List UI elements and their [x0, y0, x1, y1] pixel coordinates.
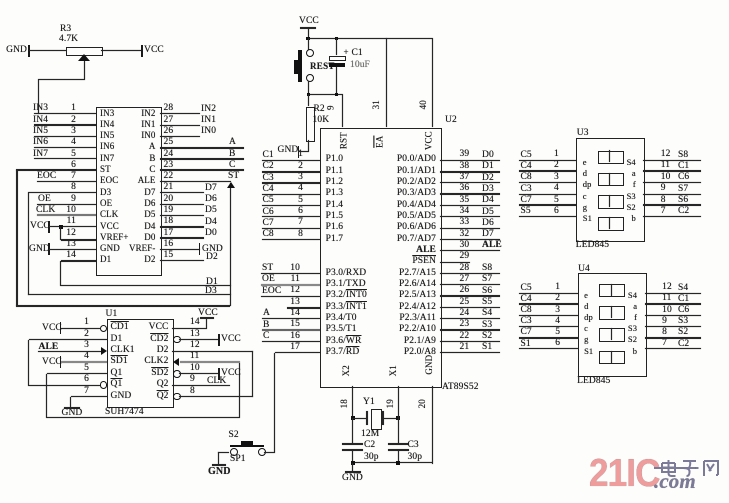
wire/net A at ADC pin 25	[160, 147, 244, 149]
pushbutton REST (reset)	[308, 38, 309, 50]
wire VCC rail to U2 pin40 VCC	[432, 38, 433, 127]
wire/net EOC to U2 pin12	[261, 296, 320, 297]
wire/net ST to U2 pin10	[261, 273, 320, 274]
wire/net C6 at U3 pin 10	[643, 182, 701, 183]
wire U2 pin18 X2 to crystal	[352, 386, 353, 418]
U3 pin numbers left 1-6	[539, 150, 559, 160]
power symbol GND near U2 pin1 (R2 bottom)	[278, 146, 299, 156]
power symbol GND below crystal	[352, 463, 353, 472]
wire/net C1 at U3 pin 11	[643, 170, 701, 172]
power symbol VCC at U1 pin14	[198, 309, 218, 319]
wire GND to ADC pin13	[49, 249, 96, 250]
power symbol VCC above U2	[299, 17, 319, 27]
flip-flop U1 SUH7474 body	[107, 319, 174, 408]
wire/net D4 at ADC pin 18	[160, 226, 204, 228]
wire/net C1 to U2 pin 1	[262, 160, 320, 161]
wire/net OE at ADC pin9	[37, 204, 96, 205]
U2 pin numbers right 39-32	[460, 150, 470, 160]
U1 pin numbers left 1-7	[69, 318, 89, 328]
wire/net IN0 at ADC pin 26	[160, 136, 200, 137]
wire/net IN3 to ADC pin 1	[34, 113, 96, 114]
wire/net D5 at U2 pin 34	[440, 216, 500, 217]
wire/net C4 to U2 pin 4	[262, 194, 320, 195]
wire U1 pin14 to VCC	[172, 328, 207, 329]
U1 internal pin names left	[111, 323, 129, 333]
wire/net IN1 at ADC pin 27	[160, 125, 200, 126]
display U4 LED845 body	[578, 273, 647, 377]
wire reset node to U2 pin9 RST	[342, 94, 343, 127]
wire net D1: ADC pin14 routed below	[61, 260, 96, 262]
wire S2 to GND	[218, 452, 229, 453]
wire U1 pin12 D2 to pin8 Q2bar	[172, 351, 253, 352]
node ST arrow junction	[227, 182, 235, 188]
wire VCC rail to U2 pin31 EA	[386, 38, 387, 127]
wire ST loop: ADC pin6 to ADC pin22 (via bottom)	[16, 169, 96, 171]
wire/net C3 to U4 pin 4	[519, 326, 578, 327]
power symbol GND (R3 left)	[0, 46, 27, 56]
wire U1 pin7 to GND	[71, 396, 107, 397]
crystal Y1 12M	[366, 411, 368, 425]
wire/net D1 at U2 pin 38	[440, 171, 500, 173]
wire/net D3 at U2 pin 36	[440, 193, 500, 195]
wire/net S2 at U2 pin 22	[440, 341, 500, 342]
wire/net S6 at U3 pin 8	[643, 204, 701, 206]
U2 internal pin names left P3	[326, 269, 367, 279]
wire U1 pin2 to U1 pin6 (D1 to Q1bar)	[29, 339, 107, 340]
U2 pin numbers right 28-21	[460, 264, 470, 274]
wire U2 pin17 to switch S2	[275, 352, 320, 353]
wire/net C5 to U4 pin 1	[519, 293, 578, 294]
wire/net S2 at U4 pin 8	[645, 337, 701, 339]
ADC pin numbers left 1-14	[51, 104, 76, 114]
wire/net C7 to U4 pin 5	[519, 337, 578, 339]
wire/net IN7 to ADC pin 5	[34, 158, 96, 159]
wire/net C at ADC pin 23	[160, 169, 244, 171]
wire/net S5 at U2 pin 25	[440, 307, 500, 308]
U4 pin numbers right 12-7	[662, 283, 672, 293]
wire/net C1 at U4 pin 11	[645, 303, 701, 305]
U2 bottom pin numbers 18 19 20	[340, 399, 349, 408]
capacitor C1 10uF	[336, 38, 337, 55]
ADC0809 U? body	[96, 107, 162, 277]
U2 internal pin names left P1	[326, 155, 344, 165]
U2 internal pin name ALE	[366, 246, 436, 256]
wire VCC to U1 pin1 bubble	[61, 328, 100, 329]
wire R2 to GND	[308, 140, 309, 152]
wire U2 pin20 GND leg	[432, 386, 433, 464]
resistor R2 10K	[308, 94, 309, 106]
wire U1 pin10 bubble to VCC	[173, 370, 181, 378]
wire/net C8 to U3 pin 3	[519, 182, 576, 183]
wire/net D7 at ADC pin 21	[160, 192, 204, 193]
wire/net D2 at U2 pin 37	[440, 182, 500, 183]
wire U1 pin13 bubble to VCC	[173, 336, 181, 344]
wire S2 to U2 pin17 leg	[264, 452, 275, 453]
power symbol VCC at U1 pin4	[42, 358, 62, 368]
wire VCC to ADC pin11 and pin12	[49, 226, 96, 227]
wire/net S5 to U3 pin 6	[519, 216, 576, 217]
watermark 21IC logo	[589, 454, 660, 495]
wire/net D6 at U2 pin 33	[440, 228, 500, 229]
wire U1 pin5 Q1 to U1 pin11 CLK2	[47, 373, 107, 374]
wire/net CLK at U1 pin9 Q2	[172, 385, 230, 386]
wire/net C6 to U2 pin 6	[262, 216, 320, 217]
power symbol GND at ADC pin16	[160, 249, 200, 250]
wire/net C4 to U4 pin 2	[519, 303, 578, 305]
microcontroller U2 AT89S52 body	[320, 128, 442, 388]
wire/net B to U2 pin15	[262, 329, 320, 331]
wire crystal ground rail	[352, 450, 353, 462]
U3 pin numbers right 12-7	[661, 150, 671, 160]
wire U1 pin11 CLK2	[180, 361, 240, 363]
pushbutton S2 SP1	[229, 431, 239, 441]
U3 internal pin names	[583, 158, 587, 167]
wire/net S1 at U2 pin 21	[440, 352, 500, 353]
wire/net S3 at U4 pin 9	[645, 326, 701, 327]
U2 internal top pin names RST EA VCC	[336, 136, 353, 145]
wire stub U2 pin13	[287, 307, 320, 309]
U2 top pin numbers 9 31 40	[329, 103, 334, 112]
wire/net D5 at ADC pin 19	[160, 215, 204, 216]
wire/net ST at ADC pin22	[160, 181, 231, 182]
wire/net C5 to U3 pin 1	[519, 160, 576, 161]
U4 pin numbers left 1-6	[540, 283, 560, 293]
wire R3 wiper to ADC IN3	[84, 61, 85, 79]
U2 pin numbers left 1-8	[278, 150, 303, 160]
wire/net CLK at ADC pin10	[37, 214, 96, 216]
wire/net S3 at U2 pin 23	[440, 329, 500, 331]
wire/net OE to U2 pin11	[261, 284, 320, 286]
U4 internal pin names	[584, 291, 588, 300]
wire/net C4 to U3 pin 2	[519, 170, 576, 172]
wire/net C2 to U2 pin 2	[262, 171, 320, 173]
wire/net A to U2 pin14	[262, 318, 320, 319]
U2 pin numbers left 10-17	[275, 264, 300, 274]
wire/net C3 to U3 pin 4	[519, 194, 576, 195]
wire crystal to U2 pin19 X1	[384, 418, 398, 419]
wire/net C2 at U4 pin 7	[645, 348, 701, 349]
watermark .com text	[654, 470, 696, 492]
potentiometer R3 4.7K	[66, 47, 103, 56]
power symbol GND below U1	[64, 407, 80, 409]
U2 internal pin names right P0	[366, 155, 436, 165]
power symbol GND at ADC pin13	[29, 245, 50, 255]
U2 pin numbers right 30 29	[460, 241, 470, 251]
wire/net C8 to U2 pin 8	[262, 239, 320, 240]
wire/net IN4 to ADC pin 2	[34, 124, 96, 126]
power symbol VCC (R3 right)	[141, 45, 143, 57]
U1 pin numbers right 14-8	[190, 318, 200, 328]
power symbol GND below S2	[212, 464, 226, 466]
wire/net C to U2 pin16	[262, 341, 320, 342]
wire/net IN2 at ADC pin 28	[160, 113, 200, 114]
wire/net C3 to U2 pin 3	[262, 182, 320, 184]
wire/net C5 to U2 pin 5	[262, 205, 320, 206]
wire/net S8 at U2 pin 28	[440, 273, 500, 274]
wire reset node row	[308, 94, 342, 95]
wire/net S6 at U2 pin 26	[440, 295, 500, 297]
wire VCC rail	[308, 38, 432, 39]
U2 internal pin names right P2	[366, 269, 436, 279]
wire/net D6 at ADC pin 20	[160, 204, 204, 205]
capacitor C3 30p	[398, 418, 399, 444]
power symbol VCC at U1 pin1	[42, 324, 62, 334]
wire/net S7 at U2 pin 27	[440, 284, 500, 285]
capacitor C2 30p	[352, 418, 353, 444]
wire/net S4 at U2 pin 24	[440, 318, 500, 319]
wire/net ALE at U2 pin30	[440, 250, 500, 251]
wire net D3: ADC pin8 routed below	[28, 192, 96, 193]
U1 clock triangle pin11	[173, 358, 179, 366]
wire/net C7 to U2 pin 7	[262, 228, 320, 229]
U2 internal bottom pin names X2 X1 GND	[341, 366, 352, 375]
wire/net D0 at ADC pin 17	[160, 237, 204, 239]
wire R3 to VCC	[101, 50, 141, 51]
wire/net S7 at U3 pin 9	[643, 194, 701, 195]
wire/net D4 at U2 pin 35	[440, 205, 500, 206]
wire/net D7 at U2 pin 32	[440, 239, 500, 240]
wire/net C6 at U4 pin 10	[645, 315, 701, 316]
wire/net C7 to U3 pin 5	[519, 204, 576, 206]
wire stub U2 pin29 PSEN	[440, 262, 470, 263]
U2 internal pin name PSEN	[366, 257, 436, 267]
wire/net S8 at U3 pin 12	[643, 160, 701, 161]
wire/net B at ADC pin 24	[160, 158, 244, 160]
power symbol VCC at ADC pin11	[30, 222, 50, 232]
wire/net EOC at ADC pin7	[37, 181, 96, 182]
wire/net C8 to U4 pin 3	[519, 315, 578, 316]
U4 digit segments	[599, 284, 625, 298]
U1 clock triangle pin3	[101, 347, 107, 355]
wire/net S4 at U4 pin 12	[645, 293, 701, 294]
watermark chinese text	[659, 458, 721, 477]
wire/net IN5 to ADC pin 3	[34, 136, 96, 137]
wire/net D0 at U2 pin 39	[440, 160, 500, 161]
ADC internal pin names right	[106, 109, 156, 118]
wire/net C2 at U3 pin 7	[643, 216, 701, 217]
ADC internal pin names left	[100, 109, 114, 118]
U3 digit segments	[598, 151, 624, 165]
wire/net S1 to U4 pin 6	[519, 348, 578, 349]
wire/net IN6 to ADC pin 4	[34, 147, 96, 148]
ADC pin numbers right 28-15	[164, 104, 174, 114]
wire/net D2 at ADC pin15	[160, 260, 204, 261]
wire GND to R3	[29, 50, 66, 51]
wire/net ALE to U1 pin3 CLK1	[39, 343, 59, 353]
U1 internal pin names right	[119, 323, 169, 333]
display U3 LED845 body	[576, 138, 645, 242]
